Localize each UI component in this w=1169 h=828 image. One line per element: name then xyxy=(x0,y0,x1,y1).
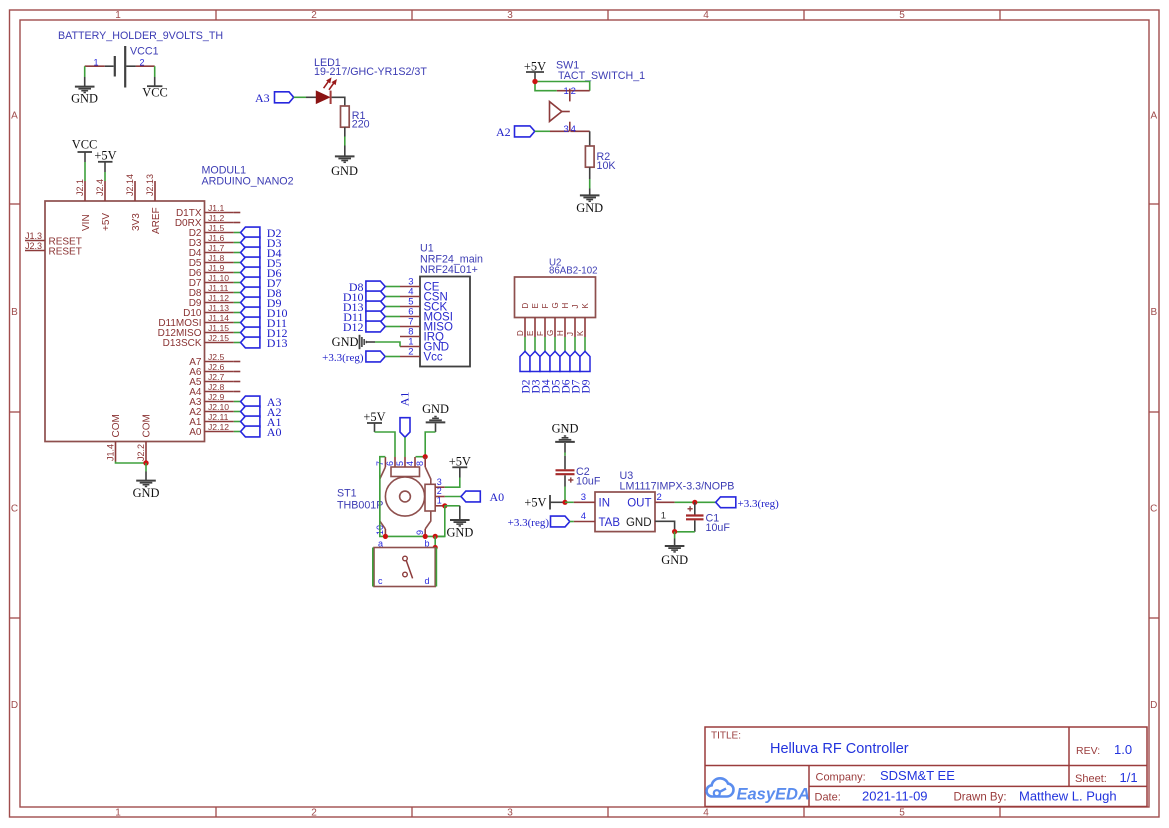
svg-text:1: 1 xyxy=(564,86,569,97)
svg-text:+3.3(reg): +3.3(reg) xyxy=(738,498,780,510)
LED LED1 xyxy=(316,78,336,104)
svg-text:5: 5 xyxy=(899,808,905,819)
svg-text:J1.9: J1.9 xyxy=(208,263,224,273)
svg-text:d: d xyxy=(425,576,430,586)
U1 pin 3 CE xyxy=(400,277,440,294)
svg-text:9: 9 xyxy=(415,530,425,535)
svg-text:COM: COM xyxy=(111,414,122,437)
wire ST1 pins 4 and 8 xyxy=(416,456,426,458)
wire COM pins to GND xyxy=(116,462,147,464)
svg-text:1: 1 xyxy=(437,496,442,506)
wire +5V to U3 IN xyxy=(565,501,574,503)
ground GND above ST1 xyxy=(422,402,449,432)
wire pin to net flag D7 xyxy=(234,282,241,284)
svg-text:J2.5: J2.5 xyxy=(208,352,224,362)
svg-text:b: b xyxy=(425,538,430,548)
svg-text:J1.11: J1.11 xyxy=(208,283,229,293)
net flag D10 xyxy=(343,290,385,304)
svg-text:SDSM&T EE: SDSM&T EE xyxy=(880,768,955,783)
wire A2 to SW1 pin3 xyxy=(535,130,550,132)
svg-text:A1: A1 xyxy=(397,392,411,407)
wire ST1 pin2 to A0 xyxy=(445,496,461,498)
svg-text:GND: GND xyxy=(446,526,473,540)
pin J2.11 A1 xyxy=(189,412,234,428)
wire D8 flag to U1 xyxy=(385,286,400,288)
svg-text:J2.11: J2.11 xyxy=(208,412,229,422)
wire pin to net flag D8 xyxy=(234,292,241,294)
net flag D4 below U2 xyxy=(540,351,553,393)
pin J1.15 D12MISO xyxy=(158,323,234,339)
wire ST1 bottom rail xyxy=(380,457,445,537)
wire C2 to +5V rail xyxy=(564,487,566,503)
U2 pin D xyxy=(516,303,530,338)
svg-text:D13SCK: D13SCK xyxy=(163,338,202,349)
svg-text:2: 2 xyxy=(657,492,662,503)
svg-text:THB001P: THB001P xyxy=(337,500,383,512)
wire pin to net flag D4 xyxy=(234,252,241,254)
U2 pin G xyxy=(546,302,560,337)
svg-text:D13: D13 xyxy=(267,336,288,350)
svg-text:J2.4: J2.4 xyxy=(95,179,105,196)
svg-text:Date:: Date: xyxy=(815,791,841,803)
power VCC battery xyxy=(142,77,167,99)
rev text xyxy=(1076,742,1132,757)
net flag A2 xyxy=(496,125,535,139)
wire R2 to GND xyxy=(589,167,591,188)
wire U2 J to D7 xyxy=(574,337,576,352)
svg-text:2: 2 xyxy=(311,10,317,21)
battery pin 2 xyxy=(126,57,155,67)
wire pin to net flag A2 xyxy=(234,411,241,413)
svg-text:C: C xyxy=(11,503,18,514)
svg-text:GND: GND xyxy=(331,164,358,178)
ground GND under R2 xyxy=(576,189,603,216)
pin J1.14 D11MOSI xyxy=(158,313,233,329)
pin J1.1 D1TX xyxy=(176,203,234,219)
svg-text:2021-11-09: 2021-11-09 xyxy=(862,788,928,803)
svg-text:G: G xyxy=(546,330,555,336)
wire LED1 to R1 xyxy=(332,97,345,106)
net flag D6 xyxy=(241,266,282,280)
svg-text:220: 220 xyxy=(352,118,370,130)
svg-text:D12: D12 xyxy=(343,320,364,334)
wire GND port to U1 GND pin xyxy=(375,342,400,347)
pin J2.9 A3 xyxy=(189,392,234,408)
svg-text:4: 4 xyxy=(405,461,415,466)
U1 pin 7 MISO xyxy=(400,317,453,334)
svg-text:E: E xyxy=(531,303,540,308)
pin J2.10 A2 xyxy=(189,402,234,418)
net flag +3.3(reg) at U3 OUT xyxy=(716,497,779,510)
svg-text:BATTERY_HOLDER_9VOLTS_TH: BATTERY_HOLDER_9VOLTS_TH xyxy=(58,30,223,42)
svg-text:19-217/GHC-YR1S2/3T: 19-217/GHC-YR1S2/3T xyxy=(314,66,427,78)
wire U2 H to D6 xyxy=(564,337,566,352)
svg-text:VCC: VCC xyxy=(72,138,97,152)
pin J2.1 VIN xyxy=(75,179,92,231)
wire GND to C2 xyxy=(564,453,566,456)
svg-text:G: G xyxy=(551,302,560,308)
svg-text:GND: GND xyxy=(576,201,603,215)
title block xyxy=(705,727,1147,807)
svg-text:J1.15: J1.15 xyxy=(208,323,229,333)
wire +5V to ST1 pin 6 xyxy=(375,432,396,457)
wire +5V to ST1 pin 3 xyxy=(445,478,460,488)
net flag D2 below U2 xyxy=(520,351,533,393)
svg-text:H: H xyxy=(561,303,570,309)
svg-text:3V3: 3V3 xyxy=(131,213,142,231)
net flag A1 xyxy=(397,392,411,438)
svg-text:1.0: 1.0 xyxy=(1114,742,1132,757)
svg-text:J2.10: J2.10 xyxy=(208,402,229,412)
junction COM xyxy=(143,460,148,465)
capacitor C1 xyxy=(686,502,730,534)
company text xyxy=(816,768,956,784)
resistor R2 xyxy=(585,146,616,172)
svg-text:Helluva RF Controller: Helluva RF Controller xyxy=(770,741,909,757)
svg-text:H: H xyxy=(556,330,565,336)
svg-text:D: D xyxy=(11,700,18,711)
module MODUL1 ARDUINO_NANO2 body xyxy=(45,201,205,442)
wire pin to net flag A0 xyxy=(234,431,241,433)
power VCC above VIN xyxy=(72,138,97,162)
wire U2 K to D9 xyxy=(584,337,586,352)
net flag A3 xyxy=(241,395,282,409)
ground GND under module xyxy=(133,472,160,501)
wire battery pin1 to GND xyxy=(84,66,86,77)
svg-text:J1.3: J1.3 xyxy=(25,231,42,241)
svg-text:2: 2 xyxy=(408,347,413,358)
U2 pin H xyxy=(556,303,570,338)
power +5V at U3 IN xyxy=(524,495,565,510)
ground GND battery xyxy=(71,77,98,106)
svg-text:OUT: OUT xyxy=(627,498,651,510)
wire pin to net flag A3 xyxy=(234,401,241,403)
pin J1.2 D0RX xyxy=(175,213,234,229)
wire pin to net flag D2 xyxy=(234,232,241,234)
net flag D8 xyxy=(349,280,385,294)
resistor R1 xyxy=(341,106,370,130)
svg-text:Vcc: Vcc xyxy=(424,352,443,364)
svg-text:IN: IN xyxy=(599,498,611,510)
wire pin to net flag D9 xyxy=(234,302,241,304)
wire U2 F to D4 xyxy=(544,337,546,352)
wire A1 to ST1 pin 5 xyxy=(404,437,406,457)
svg-text:5: 5 xyxy=(899,10,905,21)
svg-text:J2.12: J2.12 xyxy=(208,422,229,432)
wire battery pin2 to VCC xyxy=(154,66,156,77)
svg-text:GND: GND xyxy=(332,335,359,349)
wire pin to net flag A1 xyxy=(234,421,241,423)
net flag D3 below U2 xyxy=(530,351,543,393)
net flag D7 xyxy=(241,276,282,290)
svg-text:D9: D9 xyxy=(581,379,593,393)
svg-text:J2.3: J2.3 xyxy=(25,241,42,251)
wire U2 D to D2 xyxy=(524,337,526,352)
wire pin to net flag D12 xyxy=(234,332,241,334)
net flag A0 xyxy=(241,425,282,439)
svg-text:J1.14: J1.14 xyxy=(208,313,229,323)
wire D12 flag to U1 xyxy=(385,326,400,328)
wire R1 to GND xyxy=(344,127,346,145)
net flag D7 below U2 xyxy=(570,351,583,393)
U2 pin E xyxy=(526,303,540,337)
net flag D9 below U2 xyxy=(580,351,593,393)
svg-text:J1.2: J1.2 xyxy=(208,213,224,223)
joystick ST1 body xyxy=(375,457,445,536)
pin J1.11 D8 xyxy=(189,283,234,299)
date drawn by text xyxy=(815,788,1117,803)
svg-text:GND: GND xyxy=(552,422,579,436)
svg-text:c: c xyxy=(378,576,383,586)
wire A3 to LED1 xyxy=(294,96,306,98)
wire C1 to GND junction xyxy=(675,531,695,533)
pin J2.3 RESET xyxy=(25,241,82,258)
svg-text:J2.2: J2.2 xyxy=(136,444,146,461)
junction bottom rail pin 10 xyxy=(383,534,388,539)
svg-text:NRF24L01+: NRF24L01+ xyxy=(420,264,478,276)
EasyEDA logo xyxy=(707,778,810,803)
pin J2.6 A6 xyxy=(189,362,234,378)
pin J1.10 D7 xyxy=(189,273,234,289)
net flag D8 xyxy=(241,286,282,300)
svg-text:+5V: +5V xyxy=(94,149,116,163)
wire ST1 pin1 to GND xyxy=(445,505,460,507)
pin J2.5 A7 xyxy=(189,352,234,368)
svg-text:1: 1 xyxy=(115,808,121,819)
svg-text:+5V: +5V xyxy=(524,495,546,509)
svg-text:2: 2 xyxy=(311,808,317,819)
junction bottom rail pin 9 xyxy=(423,534,428,539)
pin J1.12 D9 xyxy=(189,293,234,309)
svg-text:GND: GND xyxy=(422,402,449,416)
wire U3 OUT to +3.3(reg) xyxy=(675,501,716,503)
svg-text:A: A xyxy=(1150,110,1157,121)
wire +3.3(reg) to U1 Vcc xyxy=(385,356,400,358)
wire ST1 pin1 down to bottom rail xyxy=(435,506,445,537)
pin J1.9 D6 xyxy=(189,263,234,279)
pin J1.3 RESET xyxy=(25,231,82,248)
svg-text:J1.12: J1.12 xyxy=(208,293,229,303)
net flag D4 xyxy=(241,246,282,260)
U1 pin 5 SCK xyxy=(400,297,447,314)
U3 pin 1 GND xyxy=(626,511,675,532)
ground GND port at U1 xyxy=(332,335,375,349)
svg-text:J1.6: J1.6 xyxy=(208,233,224,243)
pin J2.7 A5 xyxy=(189,372,234,388)
IC U1 NRF24 body xyxy=(420,277,470,367)
connector U2 86AB2-102 body xyxy=(515,277,596,318)
svg-text:TAB: TAB xyxy=(599,517,621,529)
svg-text:4: 4 xyxy=(703,808,709,819)
pin J2.13 AREF xyxy=(145,174,162,234)
svg-text:J1.10: J1.10 xyxy=(208,273,229,283)
pin J2.2 COM xyxy=(136,414,153,461)
svg-text:ARDUINO_NANO2: ARDUINO_NANO2 xyxy=(202,176,294,188)
junction ST1 pin 8 xyxy=(423,454,428,459)
wire VCC to VIN pin xyxy=(84,162,86,181)
regulator U3 body xyxy=(595,492,655,532)
U3 pin 2 OUT xyxy=(627,492,674,510)
net flag D11 xyxy=(343,310,385,324)
pin J1.8 D5 xyxy=(189,253,234,269)
pin J2.12 A0 xyxy=(189,422,234,438)
power +5V above pin J2.4 xyxy=(94,149,116,172)
U1 pin 6 MOSI xyxy=(400,307,453,324)
svg-text:J2.1: J2.1 xyxy=(75,179,85,196)
svg-text:J1.7: J1.7 xyxy=(208,243,224,253)
svg-text:J2.8: J2.8 xyxy=(208,382,224,392)
svg-text:J2.9: J2.9 xyxy=(208,392,224,402)
junction OUT C1 xyxy=(692,500,697,505)
svg-text:GND: GND xyxy=(71,92,98,106)
svg-text:J1.13: J1.13 xyxy=(208,303,229,313)
svg-text:+5V: +5V xyxy=(363,410,385,424)
svg-text:D: D xyxy=(521,303,530,309)
U2 pin K xyxy=(576,303,590,338)
svg-text:J1.5: J1.5 xyxy=(208,223,224,233)
pin J2.4 +5V xyxy=(95,179,112,231)
junction bottom rail switch b xyxy=(433,534,438,539)
svg-text:GND: GND xyxy=(133,486,160,500)
wire junction down xyxy=(145,463,147,472)
svg-text:4: 4 xyxy=(703,10,709,21)
svg-text:8: 8 xyxy=(415,461,425,466)
svg-text:J2.7: J2.7 xyxy=(208,372,224,382)
svg-text:A3: A3 xyxy=(255,91,270,105)
svg-text:K: K xyxy=(576,330,585,336)
junction ST1 pin1 xyxy=(442,503,447,508)
pin J1.7 D4 xyxy=(189,243,234,259)
svg-text:VIN: VIN xyxy=(81,214,92,231)
svg-text:4: 4 xyxy=(581,511,586,522)
capacitor C2 xyxy=(556,456,601,488)
wire pin to net flag D3 xyxy=(234,242,241,244)
U1 pin 8 IRQ xyxy=(400,327,444,344)
svg-text:C: C xyxy=(1150,503,1157,514)
svg-text:2: 2 xyxy=(571,86,576,97)
svg-text:VCC1: VCC1 xyxy=(130,46,159,58)
svg-text:F: F xyxy=(541,304,550,309)
svg-text:COM: COM xyxy=(142,414,153,437)
pin J1.6 D3 xyxy=(189,233,234,249)
power +5V for ST1 top xyxy=(363,410,385,432)
svg-text:Matthew L. Pugh: Matthew L. Pugh xyxy=(1019,789,1117,804)
svg-text:A0: A0 xyxy=(189,427,202,438)
junction +5V SW1 xyxy=(532,79,537,84)
wire D11 flag to U1 xyxy=(385,316,400,318)
svg-text:D: D xyxy=(516,330,525,336)
svg-text:A0: A0 xyxy=(490,490,505,504)
svg-text:J2.6: J2.6 xyxy=(208,362,224,372)
U1 pin 1 GND xyxy=(400,337,449,354)
svg-text:2: 2 xyxy=(139,57,144,67)
svg-text:LM1117IMPX-3.3/NOPB: LM1117IMPX-3.3/NOPB xyxy=(620,480,735,492)
svg-text:+3.3(reg): +3.3(reg) xyxy=(508,517,550,529)
wire pin to net flag D13 xyxy=(234,342,241,344)
U1 pin 4 CSN xyxy=(400,287,448,304)
svg-text:+5V: +5V xyxy=(101,213,112,231)
svg-text:Drawn By:: Drawn By: xyxy=(954,791,1007,803)
svg-text:GND: GND xyxy=(661,553,688,567)
svg-text:J1.1: J1.1 xyxy=(208,203,224,213)
wire U2 E to D3 xyxy=(534,337,536,352)
wire U2 G to D5 xyxy=(554,337,556,352)
ground GND right of ST1 xyxy=(446,506,473,540)
wire +3.3(reg) to TAB xyxy=(570,521,574,523)
wire +5V to pin J2.4 xyxy=(104,172,106,181)
svg-text:J1.8: J1.8 xyxy=(208,253,224,263)
wire D13 flag to U1 xyxy=(385,306,400,308)
svg-text:F: F xyxy=(536,331,545,336)
svg-text:A0: A0 xyxy=(267,425,282,439)
svg-text:86AB2-102: 86AB2-102 xyxy=(549,266,597,277)
svg-text:J: J xyxy=(566,332,575,336)
svg-text:1/1: 1/1 xyxy=(1120,770,1138,785)
net flag +3.3(reg) at U3 TAB xyxy=(508,516,570,529)
wire pin to net flag D10 xyxy=(234,312,241,314)
wire +5V to SW1 pins xyxy=(535,79,590,91)
power +5V for ST1 right xyxy=(449,455,471,478)
net flag D12 xyxy=(241,326,288,340)
net flag A2 xyxy=(241,405,282,419)
pin J1.4 COM xyxy=(106,414,123,461)
svg-text:D: D xyxy=(1150,700,1157,711)
svg-text:J2.15: J2.15 xyxy=(208,333,229,343)
svg-text:REV:: REV: xyxy=(1076,745,1100,757)
U3 pin 4 TAB xyxy=(574,511,621,529)
net flag D9 xyxy=(241,296,282,310)
svg-text:10uF: 10uF xyxy=(706,522,731,534)
net flag A1 xyxy=(241,415,282,429)
ground GND above C2 xyxy=(552,422,579,453)
svg-text:VCC: VCC xyxy=(142,85,167,99)
svg-text:Company:: Company: xyxy=(816,771,866,783)
net flag D13 xyxy=(241,336,288,350)
wire SW1 pin4 to R2 xyxy=(589,131,591,146)
battery pin 1 xyxy=(85,57,114,67)
svg-text:6: 6 xyxy=(385,461,395,466)
net flag A3 xyxy=(255,91,294,105)
svg-text:A2: A2 xyxy=(496,125,511,139)
svg-text:AREF: AREF xyxy=(151,207,162,234)
junction +5V C2 IN xyxy=(562,500,567,505)
net flag D10 xyxy=(241,306,288,320)
pin J2.8 A4 xyxy=(189,382,234,398)
svg-text:TACT_SWITCH_1: TACT_SWITCH_1 xyxy=(558,70,645,82)
wire pin to net flag D6 xyxy=(234,272,241,274)
net flag A0 xyxy=(461,490,504,504)
wire D10 flag to U1 xyxy=(385,296,400,298)
svg-text:J1.4: J1.4 xyxy=(106,444,116,461)
battery VCC1 xyxy=(115,46,125,88)
svg-text:ST1: ST1 xyxy=(337,488,357,500)
svg-text:1: 1 xyxy=(661,511,666,522)
svg-text:Sheet:: Sheet: xyxy=(1075,773,1107,785)
svg-text:3: 3 xyxy=(507,808,513,819)
svg-text:J2.14: J2.14 xyxy=(125,174,135,196)
net flag D11 xyxy=(241,316,287,330)
svg-text:B: B xyxy=(11,307,18,318)
net flag +3.3(reg) at U1 Vcc xyxy=(322,351,385,364)
svg-text:GND: GND xyxy=(626,517,652,529)
svg-text:3: 3 xyxy=(507,10,513,21)
net flag D2 xyxy=(241,226,282,240)
title text xyxy=(711,731,909,758)
net flag D5 below U2 xyxy=(550,351,563,393)
joystick switch ST1 section xyxy=(374,538,435,586)
net flag D12 xyxy=(343,320,385,334)
wire junction to GND xyxy=(674,532,676,539)
